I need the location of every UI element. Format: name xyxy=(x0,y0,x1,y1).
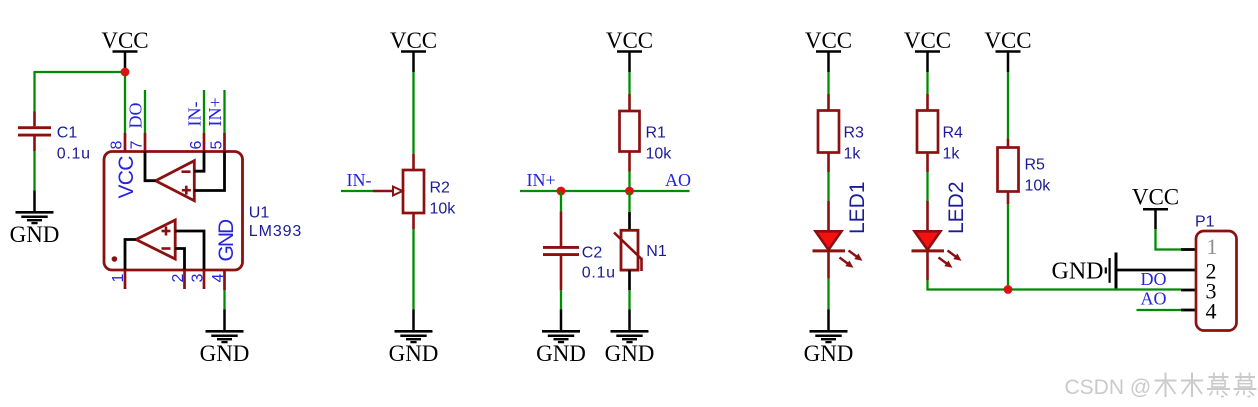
svg-text:10k: 10k xyxy=(430,201,457,218)
watermark CSDN @木木慕慕 xyxy=(1065,373,1257,400)
comparator A (top) triangle xyxy=(156,161,195,201)
comparator B (bottom) triangle xyxy=(136,220,175,259)
svg-text:AO: AO xyxy=(1141,289,1167,309)
ground symbol GND (LED1) xyxy=(804,310,854,367)
svg-text:CSDN @: CSDN @ xyxy=(1065,376,1152,399)
label C1 value 0.1u xyxy=(57,125,91,163)
svg-text:P1: P1 xyxy=(1195,214,1215,231)
wire junction to U1 pin 8 xyxy=(124,72,126,133)
thermistor N1 xyxy=(614,191,642,290)
wire C2 to ground xyxy=(560,290,562,310)
capacitor C2 xyxy=(543,191,579,290)
svg-text:LM393: LM393 xyxy=(249,223,302,240)
power symbol VCC (R1) xyxy=(606,28,653,72)
power symbol VCC (R2) xyxy=(390,28,437,72)
ground symbol GND (C2) xyxy=(536,310,586,367)
connector P1 pin stubs xyxy=(1181,250,1196,311)
svg-text:1: 1 xyxy=(110,274,127,283)
svg-text:DO: DO xyxy=(1141,269,1167,289)
svg-text:VCC: VCC xyxy=(606,28,653,53)
wire C1 to ground xyxy=(33,151,35,191)
svg-text:C1: C1 xyxy=(57,125,78,142)
wire IN- to R2 wiper xyxy=(341,190,373,192)
capacitor C1 xyxy=(18,72,51,151)
label R3 1k xyxy=(844,125,865,163)
svg-text:8: 8 xyxy=(109,141,126,150)
wire VCC to R2 xyxy=(412,72,414,154)
U1 pin 4 (GND) stub xyxy=(223,270,226,291)
wire R5 to DO net xyxy=(1007,204,1009,290)
svg-text:GND: GND xyxy=(10,222,60,247)
LED LED2 xyxy=(912,201,962,280)
junction node R5/DO xyxy=(1004,285,1013,294)
label R1 10k xyxy=(646,125,673,163)
svg-text:R1: R1 xyxy=(646,125,667,142)
comparator A minus input mark xyxy=(182,170,191,173)
power symbol VCC (U1 supply) xyxy=(101,28,148,72)
svg-text:GND: GND xyxy=(804,341,854,366)
power symbol VCC (R4) xyxy=(904,28,951,72)
wire VCC to P1 pin 1 xyxy=(1156,229,1182,249)
ground symbol GND (N1) xyxy=(605,310,655,367)
svg-text:10k: 10k xyxy=(646,146,673,163)
svg-text:VCC: VCC xyxy=(904,28,951,53)
U1 pin 8 (VCC) stub xyxy=(124,133,127,152)
resistor R5 xyxy=(998,139,1019,205)
junction node C2 xyxy=(557,187,566,196)
power symbol VCC (R3) xyxy=(805,28,852,72)
wire LED1 to ground xyxy=(827,279,829,310)
resistor R4 xyxy=(917,94,938,172)
svg-text:VCC: VCC xyxy=(805,28,852,53)
LED LED1 xyxy=(813,201,863,279)
U1 pin 3 stub xyxy=(203,270,206,290)
svg-text:4: 4 xyxy=(210,274,227,283)
svg-text:3: 3 xyxy=(190,274,207,283)
label U1 LM393 xyxy=(249,205,302,241)
connector P1 body xyxy=(1196,231,1237,331)
wire VCC to R1 xyxy=(628,72,630,94)
ground flag at P1 pin 2 xyxy=(1052,253,1117,289)
svg-text:IN-: IN- xyxy=(185,102,205,127)
U1 pin-1 marker dot xyxy=(112,256,118,262)
svg-text:IN-: IN- xyxy=(347,170,372,190)
comparator B plus input mark xyxy=(162,227,171,236)
junction node VCC/C1 xyxy=(121,68,130,77)
svg-text:GND: GND xyxy=(200,341,250,366)
U1 pin 6 (IN-) stub xyxy=(203,90,205,152)
resistor R3 xyxy=(818,94,839,172)
svg-text:LED1: LED1 xyxy=(846,181,869,234)
label R5 10k xyxy=(1025,157,1052,195)
ground symbol GND (R2) xyxy=(389,310,439,367)
comparator B minus input mark xyxy=(162,247,171,250)
U1 pin 7 (DO) stub xyxy=(144,90,146,152)
svg-text:DO: DO xyxy=(126,103,146,129)
label R2 10k xyxy=(430,180,457,218)
svg-text:GND: GND xyxy=(389,341,439,366)
wire B plus to pin 3 xyxy=(175,231,204,270)
junction node R1/N1 xyxy=(625,187,634,196)
svg-text:7: 7 xyxy=(129,141,146,150)
svg-text:0.1u: 0.1u xyxy=(57,146,91,163)
svg-text:GND: GND xyxy=(536,341,586,366)
wire ground flag to P1 pin 2 xyxy=(1116,269,1196,272)
wire VCC to R4 xyxy=(926,72,928,94)
svg-text:GND: GND xyxy=(605,341,655,366)
wire A plus to pin 5 xyxy=(194,152,224,191)
label C2 value 0.1u xyxy=(582,245,616,282)
wire N1 to ground xyxy=(628,290,630,310)
resistor R1 xyxy=(620,94,640,172)
ground symbol GND (U1) xyxy=(200,310,250,367)
svg-text:1k: 1k xyxy=(943,146,961,163)
wire A output to pin 7 xyxy=(145,152,156,181)
svg-text:LED2: LED2 xyxy=(945,181,968,234)
wire R3 to LED1 xyxy=(827,172,829,201)
power symbol VCC (P1) xyxy=(1132,185,1179,230)
svg-text:IN+: IN+ xyxy=(527,170,556,190)
svg-text:2: 2 xyxy=(170,274,187,283)
wire A minus to pin 6 xyxy=(194,152,204,172)
wire VCC to R5 xyxy=(1007,72,1009,139)
wire LED2 to DO net xyxy=(928,280,1182,289)
U1 pin 2 stub xyxy=(183,270,186,290)
svg-text:1: 1 xyxy=(1207,234,1218,259)
svg-text:VCC: VCC xyxy=(390,28,437,53)
svg-text:0.1u: 0.1u xyxy=(582,265,616,282)
svg-text:VCC: VCC xyxy=(984,28,1031,53)
wire VCC to R3 xyxy=(827,72,829,94)
svg-text:1k: 1k xyxy=(844,146,862,163)
svg-text:VCC: VCC xyxy=(115,156,138,199)
svg-text:R5: R5 xyxy=(1025,157,1046,174)
svg-text:AO: AO xyxy=(665,170,691,190)
svg-text:IN+: IN+ xyxy=(205,97,225,126)
wire R2 to ground xyxy=(412,229,414,310)
svg-text:R4: R4 xyxy=(943,125,964,142)
wire IN+ / AO horizontal net xyxy=(520,190,690,192)
wire junction to C1 xyxy=(34,71,126,73)
ground symbol GND (C1) xyxy=(10,191,60,248)
comparator A plus input mark xyxy=(182,186,191,195)
op-amp U1 LM393 body xyxy=(104,152,243,271)
wire R4 to LED2 xyxy=(926,172,928,201)
wire U1 pin 4 to ground xyxy=(223,290,225,310)
svg-text:VCC: VCC xyxy=(101,28,148,53)
wire B minus to pin 2 xyxy=(175,249,184,270)
power symbol VCC (R5) xyxy=(984,28,1031,72)
svg-text:R3: R3 xyxy=(844,125,865,142)
svg-text:GND: GND xyxy=(215,219,238,262)
wire B output to pin 1 xyxy=(125,240,136,270)
svg-text:5: 5 xyxy=(209,141,226,150)
svg-text:R2: R2 xyxy=(430,180,451,197)
svg-text:6: 6 xyxy=(188,141,205,150)
U1 pin 1 stub xyxy=(124,270,127,290)
potentiometer R2 xyxy=(373,154,424,229)
label R4 1k xyxy=(943,125,964,163)
svg-text:C2: C2 xyxy=(582,245,603,262)
svg-text:U1: U1 xyxy=(249,205,270,222)
svg-text:10k: 10k xyxy=(1025,178,1052,195)
svg-text:GND: GND xyxy=(1052,259,1104,285)
svg-text:4: 4 xyxy=(1206,299,1217,324)
svg-text:N1: N1 xyxy=(646,243,667,260)
wire R1 to node xyxy=(628,172,630,192)
wire AO to P1 pin 4 xyxy=(1137,309,1182,311)
U1 pin 5 (IN+) stub xyxy=(223,90,225,152)
svg-text:VCC: VCC xyxy=(1132,185,1179,210)
